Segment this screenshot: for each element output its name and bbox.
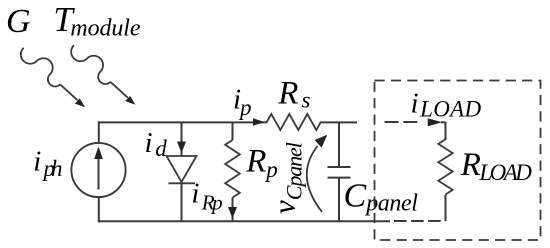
- label i_LOAD: [411, 87, 482, 121]
- current arrow i_d (on diode lead): [177, 142, 186, 154]
- wire: top rail: [98, 121, 357, 123]
- wire: dashed top link to load: [385, 122, 446, 140]
- diode D (branch): [167, 122, 197, 221]
- temperature squiggle arrow (from T_module): [71, 45, 135, 105]
- resistor R_p: [225, 122, 240, 221]
- current arrow i_p (on top rail): [253, 118, 264, 126]
- label i_d: [145, 127, 168, 161]
- label R_p: [245, 144, 277, 182]
- wire: left rail upper segment: [98, 121, 100, 144]
- wire: bottom rail: [98, 220, 390, 222]
- resistor R_LOAD: [438, 139, 452, 221]
- capacitor C_panel: [328, 122, 351, 221]
- label R_LOAD: [460, 147, 533, 185]
- label i_ph: [33, 146, 62, 182]
- current arrow i_Rp (bottom of R_p branch): [228, 207, 237, 219]
- label R_s: [277, 75, 310, 112]
- svg-text:G: G: [6, 3, 31, 40]
- irradiance squiggle arrow (from G): [21, 48, 85, 108]
- dashed load box: [375, 81, 541, 241]
- label T_module: [53, 0, 140, 42]
- current arrow i_LOAD: [428, 118, 442, 126]
- wire: left rail lower segment: [98, 196, 100, 222]
- label v_Cpanel (rotated): [267, 142, 307, 214]
- label G: [6, 3, 31, 40]
- label C_panel: [344, 178, 419, 217]
- voltage arrow v_Cpanel (curved): [307, 135, 328, 212]
- wire: dashed bottom link to load: [394, 220, 446, 222]
- current source i_ph (circle with up arrow): [71, 143, 125, 197]
- label i_Rp: [191, 178, 222, 215]
- resistor R_s (on top rail): [267, 114, 321, 130]
- label i_p: [233, 84, 251, 121]
